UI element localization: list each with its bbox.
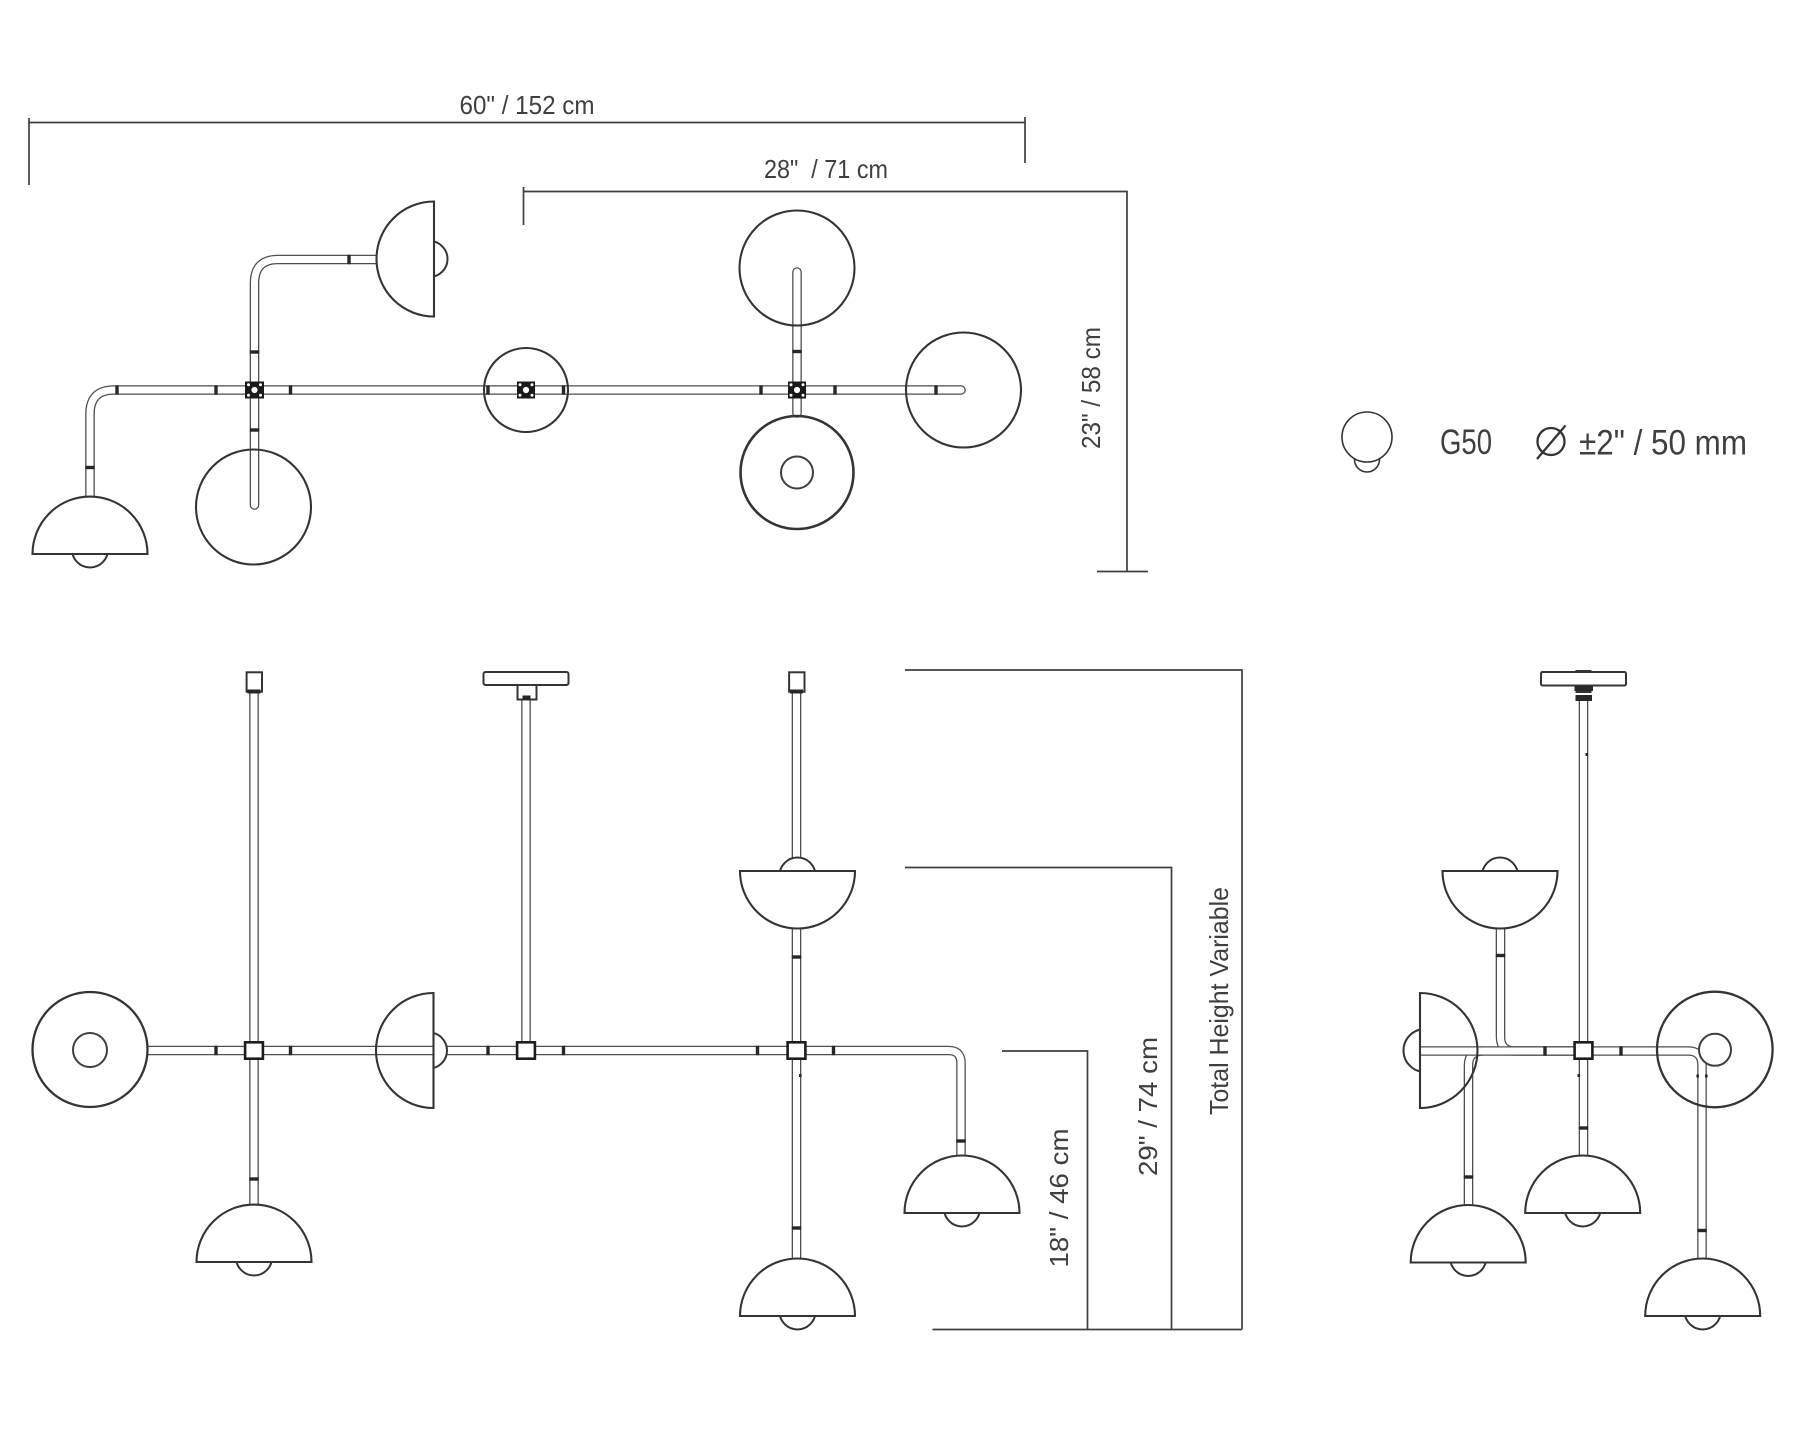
front stem3 ceiling cap (789, 672, 804, 693)
plan top circle globe (740, 211, 855, 326)
side right arm joint tick (1697, 1229, 1706, 1232)
front stem1 lower dome bulb (236, 1240, 272, 1276)
front middle shade (side-facing) (376, 993, 434, 1108)
legend G50 label (1440, 423, 1492, 462)
side left drop branch tube (1469, 1051, 1484, 1205)
front stem3 lower dome bulb (780, 1294, 816, 1330)
front canopy connector (518, 685, 537, 700)
svg-text:±2" / 50 mm: ±2" / 50 mm (1579, 424, 1747, 463)
plan left cross tube (255, 260, 378, 506)
side right arm joint dashes (1696, 1075, 1707, 1078)
plan joint tick on right stem (792, 350, 801, 353)
side left drop dome bulb (1450, 1240, 1486, 1276)
front bar joint ticks (214, 1046, 835, 1055)
svg-text:28" / 71 cm: 28" / 71 cm (764, 154, 888, 184)
plan joint tick at left bend (115, 385, 118, 394)
svg-text:Total Height Variable: Total Height Variable (1204, 887, 1234, 1115)
front stem1 ceiling cap (247, 672, 262, 693)
side bowl branch tube (1501, 925, 1577, 1051)
side left drop joint tick (1464, 1175, 1473, 1178)
plan upper shade dome (side-facing) (376, 202, 434, 317)
plan left shade dome (33, 497, 148, 554)
front canopy plate (484, 672, 569, 685)
front stem3 joint tick (792, 1226, 801, 1229)
plan centre circle (484, 348, 568, 432)
front right arm dome (905, 1156, 1020, 1214)
front stem2 tube (521, 699, 531, 1043)
plan left junction box (245, 382, 264, 399)
side bowl shade bulb (1482, 858, 1518, 894)
front stem3 lower dome (740, 1258, 855, 1316)
dimension 60in/152cm label (460, 90, 595, 120)
side central lower dome (1525, 1156, 1640, 1214)
svg-text:29" / 74 cm: 29" / 74 cm (1133, 1037, 1163, 1176)
front stem3 junction box (788, 1042, 806, 1058)
dimension total height variable label (rotated) (1204, 887, 1234, 1115)
dimension 29in/74cm line (905, 868, 1172, 1330)
side main bar tube with right drop arm (1421, 1051, 1702, 1259)
side right drop dome bulb (1685, 1294, 1721, 1330)
side shade bulb (1404, 1029, 1447, 1072)
front stem2 junction box (517, 1042, 535, 1058)
svg-text:18" / 46 cm: 18" / 46 cm (1044, 1129, 1074, 1268)
side junction box (1575, 1042, 1593, 1058)
dimension 23in/58cm label (rotated) (1076, 327, 1106, 449)
front stem1 junction box (245, 1042, 263, 1058)
front middle shade bulb (411, 1033, 447, 1069)
dimension 28in/71cm label (764, 154, 888, 184)
side central lower dome bulb (1565, 1191, 1601, 1227)
dimension 18in/46cm label (rotated) (1044, 1129, 1074, 1268)
side bar joint ticks (1543, 1046, 1622, 1055)
front right arm dome bulb (944, 1191, 980, 1227)
plan bar joint ticks (214, 385, 937, 394)
front stem3 tube (792, 692, 802, 1259)
side central stem joint dash (1578, 753, 1589, 1077)
svg-text:60" / 152 cm: 60" / 152 cm (460, 90, 595, 120)
front stem1 tube (249, 692, 259, 1205)
plan lower globe (196, 450, 311, 565)
side canopy mount block (1577, 671, 1591, 692)
side bowl branch joint tick (1496, 954, 1505, 957)
side shade (side-facing) (1420, 993, 1477, 1108)
front stem1 joint tick (249, 1177, 258, 1180)
front left globe (33, 992, 148, 1107)
plan joint ticks on left cross (250, 255, 351, 432)
front stem1 lower dome (197, 1205, 312, 1262)
dimension 60in/152cm line (29, 117, 1025, 185)
side globe inner circle (1699, 1034, 1731, 1066)
dimension 29in/74cm label (rotated) (1133, 1037, 1163, 1176)
plan main bar tube (90, 390, 961, 503)
plan right junction box (788, 382, 806, 399)
svg-text:23" / 58 cm: 23" / 58 cm (1076, 327, 1106, 449)
side right drop dome (1645, 1258, 1760, 1316)
front stem3 joint dash (799, 1074, 802, 1077)
dimension 28in/71cm + right extension line (524, 187, 1149, 572)
plan left shade bulb (72, 532, 108, 568)
front right arm joint tick (956, 1139, 965, 1142)
plan right stem tube (792, 272, 802, 413)
front stem3 joint tick below bowl (792, 955, 801, 958)
plan centre junction box (517, 382, 535, 399)
side canopy plate (1541, 672, 1626, 686)
dimension 18in/46cm line (1002, 1051, 1088, 1330)
side left drop dome (1411, 1205, 1526, 1263)
legend bulb icon (1342, 412, 1392, 472)
plan ringed shade (top view of dome) (741, 416, 854, 529)
front bowl shade (up-facing) (740, 871, 855, 928)
side central stem tube (1579, 701, 1589, 1156)
side bowl shade (up-facing) (1443, 871, 1558, 928)
side globe (1657, 992, 1773, 1108)
side central stem joint tick (1579, 1126, 1588, 1129)
front bowl shade bulb (780, 858, 816, 894)
svg-text:G50: G50 (1440, 423, 1492, 462)
plan right end globe (906, 333, 1021, 448)
dimension total height line (905, 670, 1242, 1330)
side canopy connector bands (1575, 686, 1594, 701)
front main bar tube with right drop arm (90, 1051, 961, 1156)
legend diameter symbol (1537, 426, 1566, 460)
plan joint tick on left arm (85, 466, 94, 469)
legend size label (1579, 424, 1747, 463)
plan upper shade bulb (412, 241, 448, 277)
